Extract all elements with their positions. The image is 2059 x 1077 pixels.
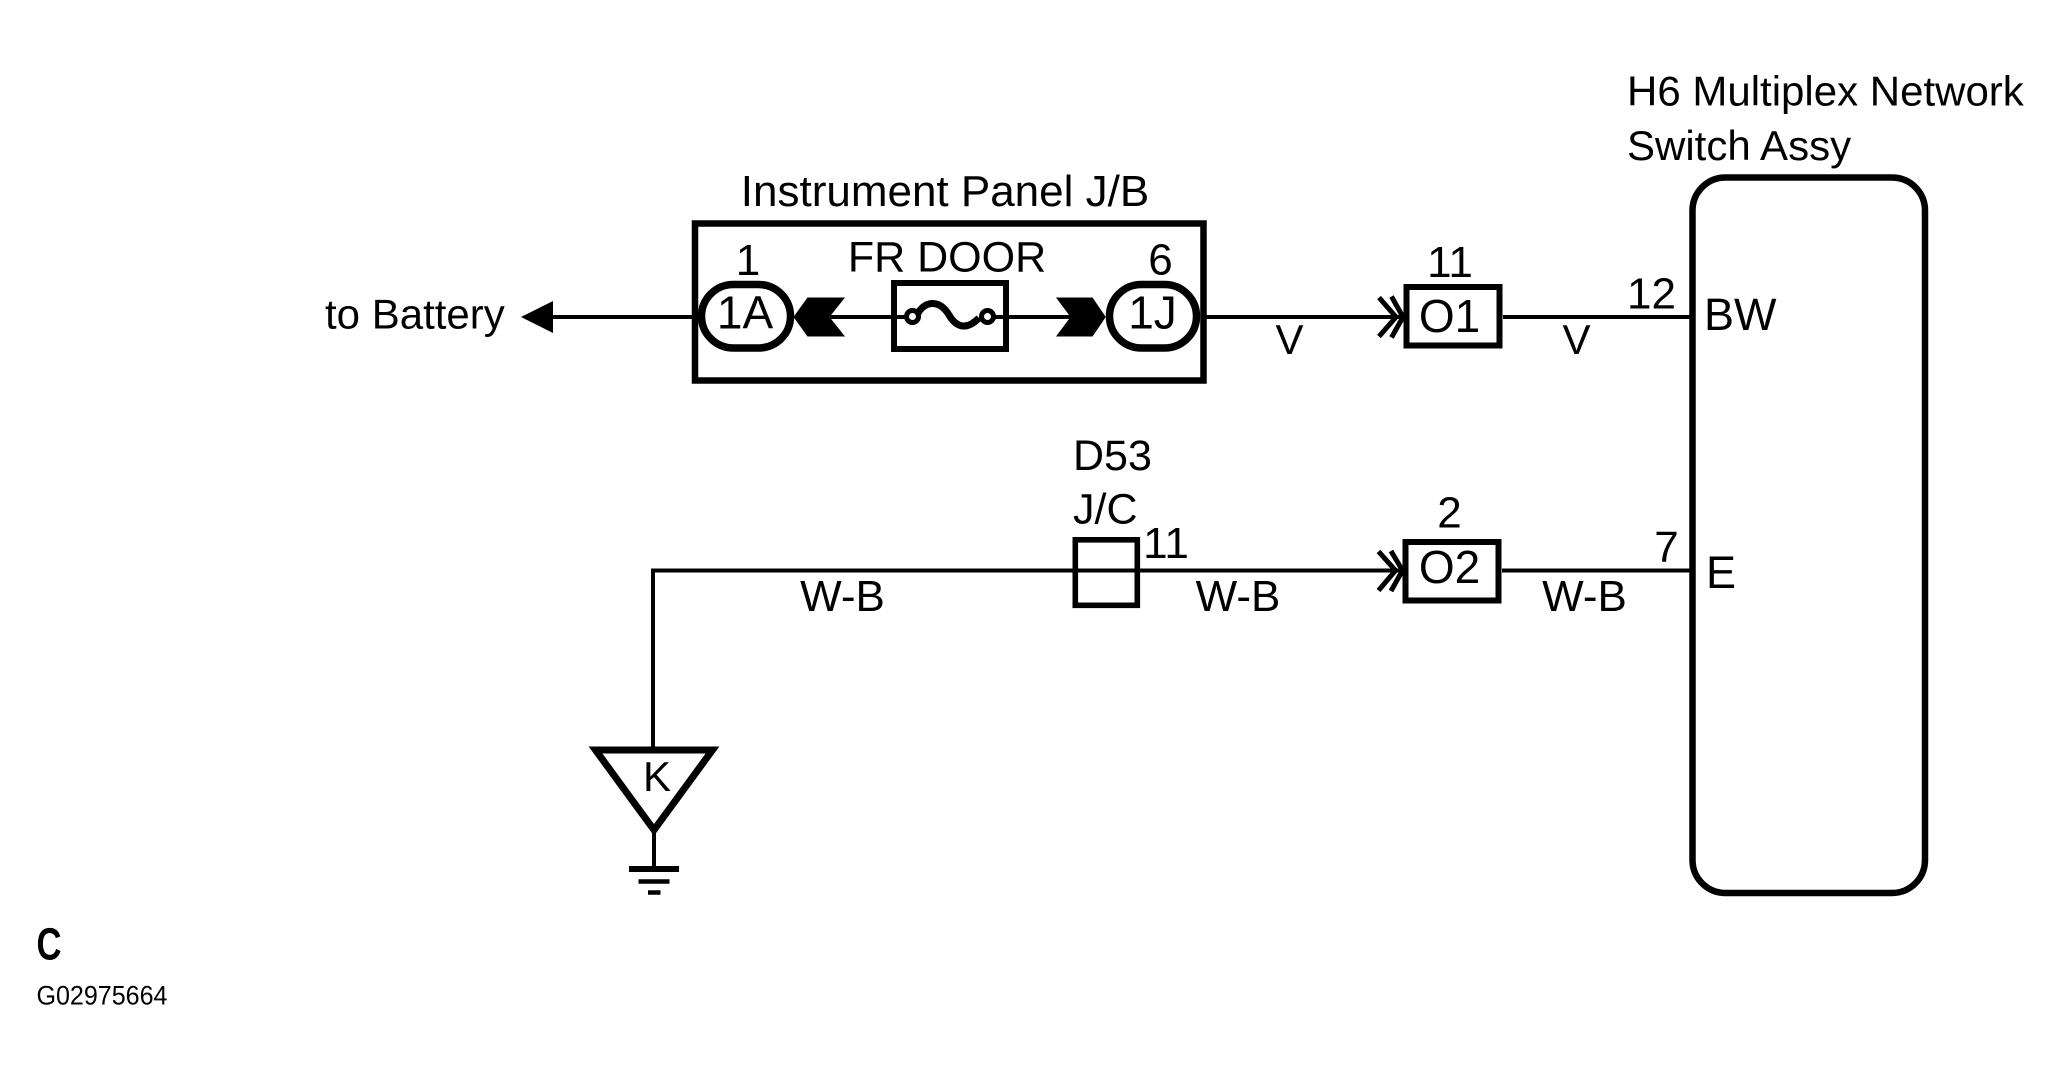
svg-text:O1: O1 (1419, 290, 1480, 342)
svg-text:J/C: J/C (1073, 486, 1138, 534)
svg-text:V: V (1275, 316, 1303, 363)
ground triangle K (596, 750, 713, 830)
svg-text:W-B: W-B (800, 572, 885, 621)
wire ground run to junction connector (651, 569, 1403, 573)
svg-text:1: 1 (736, 236, 760, 285)
ground symbol (629, 866, 679, 872)
connector cavity 1J (1110, 285, 1197, 349)
connector O1 (1407, 287, 1500, 346)
svg-text:6: 6 (1148, 236, 1172, 285)
wire O2 to switch assy, W-B, pin 7 (1502, 569, 1692, 573)
svg-text:W-B: W-B (1196, 572, 1281, 621)
svg-text:C: C (37, 919, 62, 970)
connector arrow right (male) (1056, 298, 1106, 337)
svg-text:11: 11 (1427, 238, 1473, 287)
junction block Instrument Panel J/B (695, 224, 1204, 381)
wire triangle to ground (652, 830, 656, 866)
fuse element (918, 303, 979, 326)
svg-text:E: E (1706, 547, 1736, 598)
wire 1J to inline connector, V (1204, 315, 1405, 319)
svg-text:H6 Multiplex Network: H6 Multiplex Network (1627, 68, 2025, 115)
svg-text:BW: BW (1704, 289, 1777, 340)
svg-text:D53: D53 (1073, 432, 1152, 480)
svg-text:1A: 1A (717, 287, 774, 339)
wire fuse to right arrow (994, 315, 1071, 319)
svg-text:O2: O2 (1419, 541, 1480, 593)
svg-text:12: 12 (1627, 270, 1676, 319)
svg-text:Switch Assy: Switch Assy (1627, 122, 1851, 169)
wire vertical to ground (651, 569, 655, 752)
svg-text:V: V (1562, 316, 1590, 363)
svg-text:to Battery: to Battery (325, 291, 505, 338)
connector cavity 1A (702, 285, 791, 349)
svg-text:7: 7 (1654, 523, 1678, 572)
arrowhead to battery (521, 301, 553, 333)
junction connector D53 J/C (1075, 540, 1137, 606)
wire arrow to fuse (830, 315, 906, 319)
svg-text:2: 2 (1437, 489, 1461, 538)
svg-text:K: K (643, 753, 671, 800)
svg-text:G02975664: G02975664 (37, 981, 168, 1011)
svg-text:Instrument Panel J/B: Instrument Panel J/B (741, 167, 1149, 216)
svg-text:11: 11 (1143, 519, 1189, 568)
inline connector chevrons (lower) (1379, 552, 1396, 591)
svg-text:1J: 1J (1128, 287, 1177, 339)
fuse FR DOOR box (894, 283, 1006, 349)
connector O2 (1406, 542, 1499, 601)
wire O1 to switch assy, V, pin 12 (1503, 315, 1692, 319)
wire battery to 1A (548, 315, 700, 319)
svg-text:W-B: W-B (1542, 572, 1627, 621)
svg-text:FR DOOR: FR DOOR (848, 234, 1046, 282)
inline connector chevrons (upper) (1379, 298, 1396, 337)
connector arrow left (female) (794, 298, 846, 337)
component H6 Multiplex Network Switch Assy box (1693, 178, 1926, 894)
